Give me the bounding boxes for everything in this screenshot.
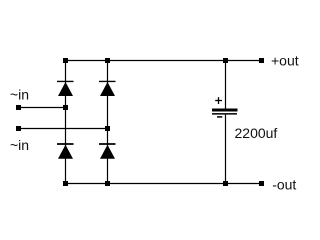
- wire capacitor top lead: [225, 61, 227, 109]
- node bottom-left junction: [63, 181, 68, 186]
- node bottom rail / right branch junction: [105, 181, 110, 186]
- diode upper-right (cathode bar + triangle): [99, 81, 116, 96]
- diode lower-right (cathode bar + triangle): [99, 144, 116, 159]
- node bottom rail / capacitor junction: [223, 181, 228, 186]
- node top rail / capacitor junction: [223, 58, 228, 63]
- wire left bridge branch: [65, 61, 67, 184]
- svg-text:-out: -out: [272, 177, 296, 193]
- diode upper-left (cathode bar + triangle): [57, 81, 74, 96]
- wire AC input 2: [19, 128, 108, 130]
- label ~in (upper input): [10, 87, 29, 103]
- svg-text:+out: +out: [271, 53, 299, 69]
- node ~in upper terminal: [16, 105, 21, 110]
- svg-text:2200uf: 2200uf: [235, 125, 278, 141]
- diode lower-left (cathode bar + triangle): [57, 144, 74, 159]
- node input 2 / right branch junction: [105, 126, 110, 131]
- svg-text:~in: ~in: [10, 87, 29, 103]
- node input 1 / left branch junction: [63, 105, 68, 110]
- wire right bridge branch: [107, 61, 109, 184]
- node top rail / right branch junction: [105, 58, 110, 63]
- wire capacitor bottom lead: [225, 115, 227, 184]
- wire bottom rail (-): [66, 183, 262, 185]
- wire top rail (+): [66, 60, 262, 62]
- capacitor minus polarity mark: [217, 116, 222, 118]
- node top-left junction: [63, 58, 68, 63]
- node +out terminal: [259, 58, 264, 63]
- node ~in lower terminal: [16, 126, 21, 131]
- label -out: [272, 177, 296, 193]
- capacitor C 2200uf (polarized plates): [212, 109, 238, 115]
- wire AC input 1: [19, 107, 66, 109]
- label 2200uf capacitor value: [235, 125, 278, 141]
- label +out: [271, 53, 299, 69]
- label ~in (lower input): [10, 137, 29, 153]
- node -out terminal: [259, 181, 264, 186]
- capacitor plus polarity mark: [215, 97, 222, 104]
- svg-text:~in: ~in: [10, 137, 29, 153]
